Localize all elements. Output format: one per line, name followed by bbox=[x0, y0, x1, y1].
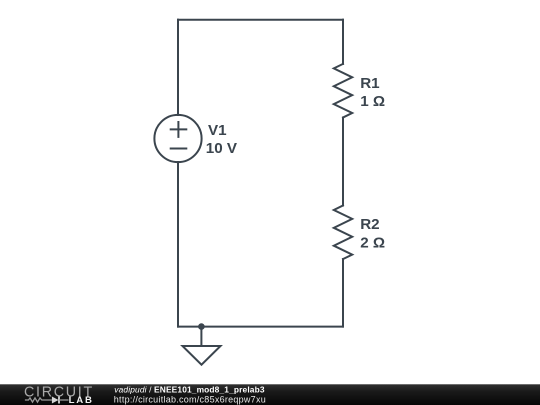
logo resistor zigzag bbox=[25, 398, 52, 402]
svg-text:http://circuitlab.com/c85x6req: http://circuitlab.com/c85x6reqpw7xu bbox=[114, 394, 266, 404]
wire right vertical middle bbox=[342, 118, 344, 206]
svg-text:R1: R1 bbox=[360, 75, 380, 92]
wire top horizontal bbox=[178, 19, 343, 21]
node junction dot bbox=[198, 323, 205, 330]
svg-text:V1: V1 bbox=[208, 122, 227, 139]
ground bbox=[183, 327, 221, 365]
wire bottom horizontal bbox=[178, 326, 343, 328]
logo diode bar bbox=[58, 397, 60, 404]
wire right vertical lower bbox=[342, 259, 344, 327]
voltage source V1 bbox=[154, 115, 201, 162]
svg-text:LAB: LAB bbox=[69, 395, 94, 405]
svg-text:10 V: 10 V bbox=[206, 140, 238, 157]
wire left vertical lower bbox=[177, 162, 179, 327]
logo wire after diode bbox=[59, 399, 69, 401]
svg-text:1 Ω: 1 Ω bbox=[360, 93, 385, 110]
resistor R1 bbox=[334, 64, 352, 118]
wire right vertical upper bbox=[342, 20, 344, 64]
resistor R2 bbox=[334, 206, 352, 260]
wire left vertical upper bbox=[177, 20, 179, 115]
svg-text:vadipudi / ENEE101_mod8_1_prel: vadipudi / ENEE101_mod8_1_prelab3 bbox=[114, 384, 265, 394]
logo diode bbox=[52, 397, 59, 404]
svg-text:2 Ω: 2 Ω bbox=[360, 235, 385, 252]
svg-text:R2: R2 bbox=[360, 216, 379, 233]
